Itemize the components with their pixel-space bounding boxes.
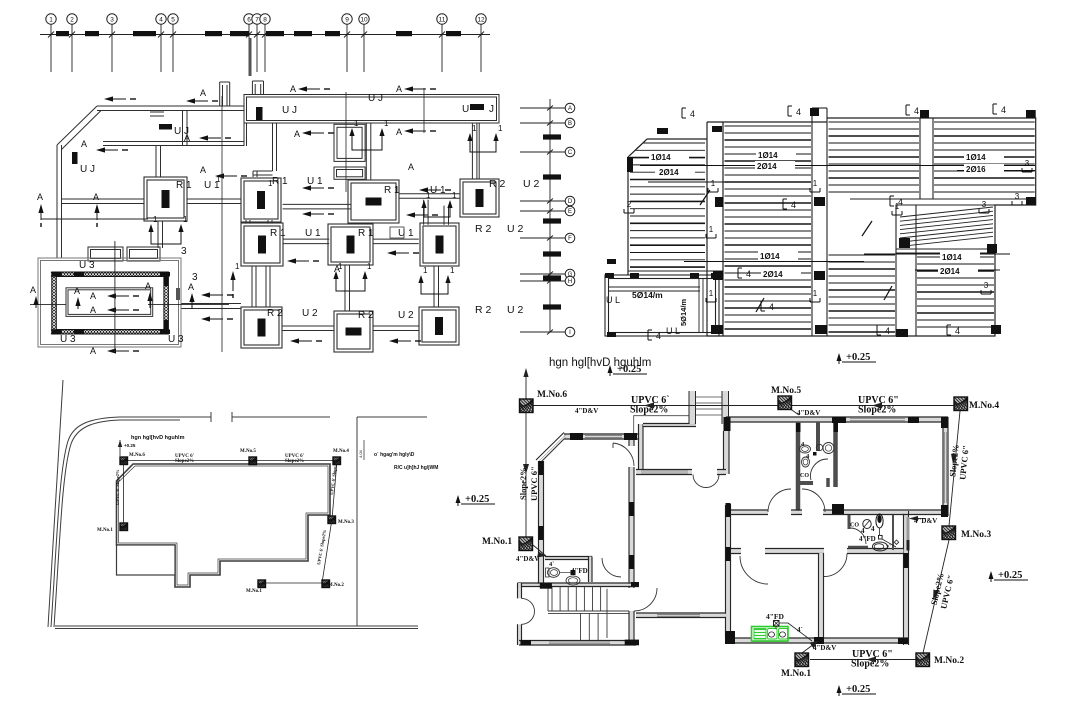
grid bubble 12 xyxy=(476,14,486,24)
site building outline xyxy=(117,464,331,587)
svg-text:R 1: R 1 xyxy=(270,228,286,239)
svg-text:M.No.5: M.No.5 xyxy=(240,449,256,454)
manhole M.No.1 bottom xyxy=(795,653,809,667)
slab diagonal panel P5 xyxy=(900,207,993,246)
svg-text:A: A xyxy=(200,88,206,98)
stairs block left wall xyxy=(518,583,521,598)
svg-text:1: 1 xyxy=(452,191,457,200)
grid bubble 7 xyxy=(252,14,262,24)
pipe stub M1 left xyxy=(533,545,546,556)
grid axis 6 heavy line xyxy=(249,38,252,76)
section line AA tank horizontal xyxy=(30,303,66,305)
grid bubble A xyxy=(565,103,575,113)
svg-text:M.No.2: M.No.2 xyxy=(328,583,344,588)
svg-text:UPVC 6": UPVC 6" xyxy=(529,466,539,501)
window stairs bottom xyxy=(549,642,610,644)
pipe arrows xyxy=(644,403,654,409)
svg-text:1: 1 xyxy=(813,289,818,298)
svg-text:D: D xyxy=(568,199,573,205)
svg-text:1: 1 xyxy=(384,119,389,128)
top bathroom fixtures xyxy=(800,445,811,453)
chimney stub 2 xyxy=(251,81,253,95)
beam F4 down to F7 xyxy=(424,200,429,225)
svg-text:M.No.3: M.No.3 xyxy=(961,530,991,540)
beam F5 down xyxy=(252,266,256,307)
site bottom boundary xyxy=(55,625,418,627)
svg-text:B: B xyxy=(568,121,572,127)
svg-text:9: 9 xyxy=(345,16,349,23)
svg-text:R 1: R 1 xyxy=(384,185,400,196)
svg-text:1: 1 xyxy=(49,16,53,23)
svg-text:U 3: U 3 xyxy=(79,260,95,271)
svg-text:4: 4 xyxy=(861,527,865,535)
svg-text:1Ø14: 1Ø14 xyxy=(942,253,962,262)
svg-text:C: C xyxy=(568,150,573,156)
beam strip 3 xyxy=(919,118,921,199)
site pipe top xyxy=(120,460,337,462)
svg-text:1Ø14: 1Ø14 xyxy=(760,252,780,261)
svg-text:A: A xyxy=(93,192,99,202)
site pipe right slanted xyxy=(261,461,337,583)
slab hatch panel P3 bottom xyxy=(829,255,896,332)
window right 1 xyxy=(945,432,947,503)
door D8 xyxy=(811,459,828,480)
svg-text:4"FD: 4"FD xyxy=(571,567,588,575)
wall step right xyxy=(908,511,948,514)
door D5 xyxy=(634,588,657,611)
beam F9-F10 xyxy=(373,326,419,331)
pipe top xyxy=(533,405,954,407)
bottom middle room wall xyxy=(636,614,726,617)
svg-text:A: A xyxy=(568,106,572,112)
slab hatch panel P2 xyxy=(725,126,812,329)
window top 3 xyxy=(850,419,905,421)
svg-text:4`: 4` xyxy=(797,626,803,634)
vertical grid axis line xyxy=(549,99,551,332)
svg-text:R 2: R 2 xyxy=(475,304,492,316)
svg-text:A: A xyxy=(184,133,190,143)
svg-text:UPVC 6' Slope2%: UPVC 6' Slope2% xyxy=(115,469,120,505)
grid bubble 8 xyxy=(260,14,270,24)
corridor wall y512 xyxy=(726,511,768,514)
window top 1 xyxy=(585,436,622,438)
pipe left vertical xyxy=(525,412,527,537)
svg-text:M.No.3: M.No.3 xyxy=(338,520,354,525)
svg-text:R 2: R 2 xyxy=(358,310,374,321)
svg-text:M.No.1: M.No.1 xyxy=(781,669,811,679)
svg-text:4"D&V: 4"D&V xyxy=(797,409,820,417)
svg-text:4: 4 xyxy=(746,269,751,279)
svg-text:o` hgag'm hgly\D: o` hgag'm hgly\D xyxy=(374,452,415,458)
pipe start arrow xyxy=(525,372,527,400)
svg-text:1: 1 xyxy=(709,225,714,234)
beam band to footing R1c xyxy=(366,123,371,180)
svg-text:U 3: U 3 xyxy=(168,334,184,345)
svg-text:1: 1 xyxy=(338,262,343,271)
svg-text:Slope2%: Slope2% xyxy=(851,659,889,670)
dimension text blocks vertical axis xyxy=(543,134,561,139)
svg-text:2: 2 xyxy=(627,200,632,209)
window mid 1 xyxy=(641,471,688,473)
svg-text:U J: U J xyxy=(282,105,297,116)
site manholes xyxy=(120,457,128,465)
svg-text:4: 4 xyxy=(914,106,919,116)
svg-text:8: 8 xyxy=(263,16,267,23)
rebar labels xyxy=(649,152,689,162)
door N2 xyxy=(802,489,825,512)
grid bubble I xyxy=(565,327,575,337)
wall vert 3 xyxy=(819,553,823,638)
svg-text:M.No.5: M.No.5 xyxy=(771,386,801,396)
corner beam jog xyxy=(183,111,188,146)
wall step xyxy=(639,424,642,470)
svg-text:5: 5 xyxy=(171,16,175,23)
manhole M.No.6 xyxy=(520,399,534,413)
svg-text:R/C u]h]hJ hg/jWM: R/C u]h]hJ hg/jWM xyxy=(394,465,438,471)
tank corner blocks xyxy=(52,272,62,277)
svg-text:M.No.1: M.No.1 xyxy=(246,589,262,594)
door wc xyxy=(602,558,621,577)
site garage rectangle xyxy=(117,545,176,575)
beam F6-F7 xyxy=(373,239,418,244)
stub right of tank xyxy=(176,288,180,300)
grid bubble C xyxy=(565,147,575,157)
grid bubble B xyxy=(565,118,575,128)
svg-text:M.No.4: M.No.4 xyxy=(333,449,349,454)
beam tank to F8 xyxy=(181,304,241,309)
grid bubble D xyxy=(565,196,575,206)
beam chamfer to F1 top xyxy=(103,142,183,146)
svg-text:M.No.6: M.No.6 xyxy=(129,453,145,458)
svg-text:U 1: U 1 xyxy=(307,176,323,187)
door D7 xyxy=(824,554,847,577)
column blocks xyxy=(520,417,948,645)
site pipe left xyxy=(123,461,125,527)
grid axis dimension line xyxy=(40,34,490,36)
beam band to footing R2a xyxy=(472,123,477,179)
grid bubble H xyxy=(565,276,575,286)
svg-text:R 2: R 2 xyxy=(475,223,492,235)
svg-text:Slope2%: Slope2% xyxy=(285,459,304,464)
site top boundary xyxy=(357,416,427,418)
svg-text:4"D&V: 4"D&V xyxy=(914,517,937,525)
wall bathroom left xyxy=(848,515,851,529)
grid bubble 2 xyxy=(67,14,77,24)
svg-text:A: A xyxy=(188,282,194,292)
bathroom partition xyxy=(892,515,894,550)
site north arrow xyxy=(119,440,121,456)
footing R1e xyxy=(328,224,373,265)
stairs block top wall xyxy=(518,584,640,586)
wall wc right xyxy=(589,557,591,583)
footing R1d xyxy=(241,223,283,266)
svg-text:4: 4 xyxy=(769,302,774,312)
site building inner outline xyxy=(119,466,329,585)
stairs block bottom wall xyxy=(519,641,636,644)
svg-text:4: 4 xyxy=(690,109,695,119)
footing R2a xyxy=(460,179,499,217)
svg-text:U 1: U 1 xyxy=(305,228,321,239)
section arrows A xyxy=(104,96,113,101)
slab interior boundary lines xyxy=(850,198,1036,200)
svg-text:R 2: R 2 xyxy=(267,308,283,319)
site right boundary xyxy=(356,417,358,626)
wall right 1 xyxy=(944,417,948,516)
svg-text:4: 4 xyxy=(885,326,890,336)
door D1 xyxy=(613,443,634,466)
section line AA tank vertical xyxy=(114,241,116,352)
wall mid vertical xyxy=(724,431,728,474)
svg-text:hgn hgl[hvD hguhlm: hgn hgl[hvD hguhlm xyxy=(131,435,185,441)
wall right 2 xyxy=(904,511,908,645)
svg-text:11: 11 xyxy=(439,16,446,23)
left edge wall xyxy=(57,145,62,258)
svg-text:Slope2%: Slope2% xyxy=(518,467,528,500)
grid bubble 11 xyxy=(437,14,447,24)
svg-text:U 2: U 2 xyxy=(507,223,524,235)
wall chamfer top-left xyxy=(536,433,568,464)
pipe M2-M1 xyxy=(810,659,916,661)
slab hatch panel P6 xyxy=(917,257,994,327)
beam strip 2 xyxy=(811,108,813,336)
pipe stub M5 xyxy=(789,408,799,415)
bottom bathroom fixtures xyxy=(863,520,871,529)
svg-text:2: 2 xyxy=(70,16,74,23)
svg-text:U L: U L xyxy=(666,326,680,336)
svg-text:U J: U J xyxy=(80,164,95,175)
svg-text:Slope2%: Slope2% xyxy=(630,405,668,416)
footing R2d xyxy=(334,311,373,352)
site road line xyxy=(48,380,63,627)
grid bubble 1 xyxy=(46,14,56,24)
beam F2-F5 connectors xyxy=(246,220,250,224)
svg-text:U L: U L xyxy=(606,295,620,305)
svg-text:A: A xyxy=(90,346,96,356)
beam F1-F2 xyxy=(187,199,241,204)
footing R2e xyxy=(419,307,459,345)
svg-text:U 3: U 3 xyxy=(60,334,76,345)
grid bubble 6 xyxy=(244,14,254,24)
svg-text:4"D&V: 4"D&V xyxy=(575,407,598,415)
svg-text:+0.25: +0.25 xyxy=(124,443,136,448)
strip beam top left xyxy=(97,106,244,111)
svg-text:R 1: R 1 xyxy=(176,180,192,191)
entrance ladder xyxy=(690,391,695,424)
svg-text:4"FD: 4"FD xyxy=(766,612,784,621)
svg-text:E: E xyxy=(568,209,572,215)
svg-text:6: 6 xyxy=(247,16,251,23)
door N1 xyxy=(768,489,791,512)
tank inner rect xyxy=(66,288,153,317)
svg-text:1: 1 xyxy=(423,266,428,275)
svg-text:Slope2%: Slope2% xyxy=(175,459,194,464)
svg-text:A: A xyxy=(81,139,87,149)
top bathroom walls xyxy=(796,422,801,514)
beam F7 down to F10 xyxy=(434,266,439,307)
corridor wall below band xyxy=(273,123,277,171)
svg-text:F: F xyxy=(568,236,572,242)
svg-text:2Ø14: 2Ø14 xyxy=(757,162,777,171)
svg-text:U: U xyxy=(462,104,469,115)
svg-text:U 2: U 2 xyxy=(398,310,414,321)
U L room xyxy=(605,275,719,336)
svg-text:4.04: 4.04 xyxy=(358,449,363,458)
pipe M3-M2 xyxy=(923,540,949,653)
wall mid horizontal 1 xyxy=(636,470,692,474)
svg-text:1: 1 xyxy=(450,266,455,275)
svg-text:R 1: R 1 xyxy=(272,176,288,187)
wall bathroom top (step) xyxy=(848,511,908,514)
beam F1 down xyxy=(158,221,163,248)
footing R1b xyxy=(241,178,281,222)
svg-text:4"D&V: 4"D&V xyxy=(813,644,836,652)
svg-text:+0.25: +0.25 xyxy=(465,494,489,505)
window left wall xyxy=(540,478,542,524)
small pad S2 xyxy=(334,167,365,179)
svg-text:A: A xyxy=(290,84,296,94)
svg-text:2Ø14: 2Ø14 xyxy=(659,168,679,177)
grid bubble 10 xyxy=(359,14,369,24)
svg-text:A: A xyxy=(294,129,300,139)
svg-text:M.No.6: M.No.6 xyxy=(537,390,567,400)
svg-text:3: 3 xyxy=(181,246,187,257)
svg-text:U 2: U 2 xyxy=(302,308,318,319)
rebar callout lines xyxy=(640,165,1035,167)
svg-text:3: 3 xyxy=(1015,192,1020,201)
svg-text:1: 1 xyxy=(268,179,273,188)
site dim line right xyxy=(363,440,365,460)
svg-text:2`: 2` xyxy=(886,545,891,551)
beam F5-F6 xyxy=(283,239,329,244)
grid bubble 5 xyxy=(168,14,178,24)
wall top 1 xyxy=(564,435,641,439)
svg-text:A: A xyxy=(396,127,402,137)
svg-text:1Ø14: 1Ø14 xyxy=(966,153,986,162)
door D6 xyxy=(740,556,768,584)
svg-text:J: J xyxy=(489,104,494,115)
svg-text:4"D&V: 4"D&V xyxy=(516,555,539,563)
svg-text:4: 4 xyxy=(796,107,801,117)
svg-text:4: 4 xyxy=(871,525,875,533)
svg-text:U 2: U 2 xyxy=(507,304,524,316)
black squares on beams xyxy=(605,108,1036,337)
pipe stub M1 bottom xyxy=(802,641,818,653)
site curved boundary xyxy=(51,417,211,627)
svg-text:U J: U J xyxy=(368,93,383,104)
svg-text:R 2: R 2 xyxy=(489,178,506,190)
window bottom kitchen xyxy=(753,640,788,642)
grid bubble 9 xyxy=(342,14,352,24)
svg-text:1: 1 xyxy=(367,262,372,271)
svg-text:1: 1 xyxy=(895,202,900,211)
wall mid horizontal 2 xyxy=(765,549,824,553)
svg-text:1: 1 xyxy=(426,191,431,200)
svg-text:2Ø14: 2Ø14 xyxy=(940,267,960,276)
svg-text:2Ø16: 2Ø16 xyxy=(966,165,986,174)
svg-text:1: 1 xyxy=(498,124,503,133)
wall wc top xyxy=(545,557,592,559)
svg-text:1: 1 xyxy=(709,289,714,298)
slab hatch panel P4 xyxy=(934,122,1035,192)
svg-text:A: A xyxy=(90,305,96,315)
svg-text:CO: CO xyxy=(850,523,859,529)
svg-text:4"FD: 4"FD xyxy=(859,535,876,543)
svg-text:U 2: U 2 xyxy=(523,178,540,190)
svg-text:A: A xyxy=(396,84,402,94)
beam F6 down to F9 xyxy=(345,265,350,311)
svg-text:U 1: U 1 xyxy=(398,228,414,239)
footing R1c xyxy=(348,180,399,223)
svg-text:1: 1 xyxy=(153,215,158,224)
svg-text:A: A xyxy=(408,162,414,172)
beam left to F1 xyxy=(62,199,145,204)
entrance double door xyxy=(522,598,535,611)
svg-text:A: A xyxy=(200,165,206,175)
svg-text:1: 1 xyxy=(711,179,716,188)
svg-text:1Ø14: 1Ø14 xyxy=(758,151,778,160)
svg-text:A: A xyxy=(30,285,36,295)
U3 pads above tank xyxy=(88,247,123,261)
svg-text:3: 3 xyxy=(982,200,987,209)
wc sink near stairs xyxy=(566,576,580,585)
kitchen sink green xyxy=(752,627,789,642)
svg-text:4`: 4` xyxy=(549,561,554,568)
manhole M.No.5 xyxy=(778,396,792,410)
svg-text:M.No.4: M.No.4 xyxy=(969,401,999,411)
svg-text:H: H xyxy=(568,279,572,285)
svg-text:A: A xyxy=(37,192,43,202)
svg-text:R 1: R 1 xyxy=(358,228,374,239)
svg-text:3: 3 xyxy=(1025,159,1030,168)
svg-text:5Ø14/m: 5Ø14/m xyxy=(632,290,663,300)
svg-text:A: A xyxy=(90,291,96,301)
beam strip 4 xyxy=(895,205,897,336)
dimension text blocks xyxy=(56,31,69,36)
section line verticals xyxy=(221,96,223,352)
grid bubble 4 xyxy=(156,14,166,24)
U J band xyxy=(244,95,499,124)
wall bottom main xyxy=(726,639,908,643)
slab outline xyxy=(628,118,1036,336)
grid bubble 3 xyxy=(107,14,117,24)
grid bubble E xyxy=(565,206,575,216)
svg-text:2Ø14: 2Ø14 xyxy=(763,270,783,279)
svg-text:1: 1 xyxy=(235,262,240,271)
svg-text:1: 1 xyxy=(813,179,818,188)
diagonal break marks xyxy=(756,298,764,312)
wall center vertical xyxy=(630,467,634,588)
svg-text:4: 4 xyxy=(656,331,661,341)
footing R2b xyxy=(420,223,459,266)
manhole M.No.4 xyxy=(954,397,968,411)
svg-text:M.No.1: M.No.1 xyxy=(482,537,512,547)
manhole M.No.2 xyxy=(916,653,930,667)
wall top 2 xyxy=(643,424,696,426)
tank hatched wall band xyxy=(51,272,168,334)
beam F8-F9 xyxy=(282,326,334,331)
svg-text:1: 1 xyxy=(354,119,359,128)
beam F2-F3 xyxy=(283,204,351,209)
svg-text:A: A xyxy=(74,286,80,296)
svg-text:4: 4 xyxy=(1001,105,1006,115)
svg-text:A: A xyxy=(145,281,151,291)
bracket labels 4 xyxy=(682,108,686,118)
svg-text:4: 4 xyxy=(159,16,163,23)
manhole M.No.1 left xyxy=(519,537,533,551)
stairs xyxy=(548,587,629,641)
pipe M4-M3 xyxy=(949,411,960,526)
svg-text:1Ø14: 1Ø14 xyxy=(651,153,671,162)
